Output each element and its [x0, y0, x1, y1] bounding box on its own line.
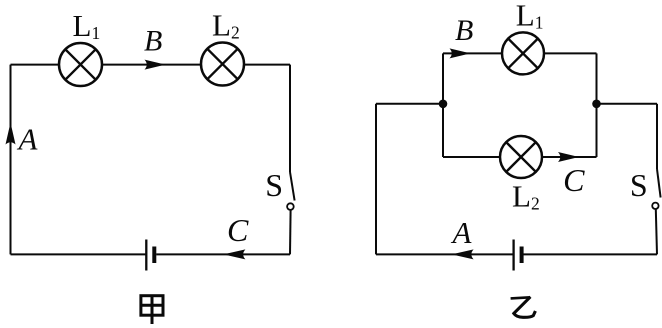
battery long plate [512, 240, 514, 271]
svg-text:L2: L2 [212, 8, 240, 43]
switch S blade [290, 172, 295, 201]
switch S contact circle [652, 203, 658, 209]
svg-text:L2: L2 [512, 179, 540, 214]
current arrow A (bottom, left) [452, 249, 474, 259]
wire: left outer vertical [375, 104, 377, 255]
label 甲 (drawn strokes) [141, 296, 163, 324]
wire: parallel box left vertical [442, 53, 444, 157]
wire: bottom branch (L2) [443, 156, 597, 158]
wire: right vertical lower (below switch) [289, 210, 292, 255]
wire: bottom right segment (to battery) [156, 253, 290, 255]
current arrow C (right branch bottom) [558, 152, 579, 162]
wire: bottom side right segment [522, 253, 657, 255]
current arrow A (up) [6, 123, 16, 145]
svg-text:B: B [455, 14, 473, 47]
wire: right vertical upper (to switch) [289, 65, 291, 172]
svg-text:S: S [265, 167, 283, 203]
lamp L1 [59, 43, 102, 86]
wire: parallel box right vertical [596, 53, 598, 157]
battery long plate [145, 240, 147, 271]
node junction dot left [439, 100, 448, 109]
svg-text:C: C [563, 162, 585, 198]
lamp L2 [201, 43, 244, 86]
node junction dot right [592, 100, 601, 109]
wire: left rail to node [376, 103, 443, 105]
wire: right outer vertical lower [656, 209, 657, 254]
wire: right outer vertical upper (to switch) [656, 104, 658, 169]
svg-text:L1: L1 [73, 8, 101, 43]
lamp L1 (right circuit) [502, 32, 544, 74]
wire: right rail from node [597, 103, 658, 105]
battery short thick plate [152, 247, 156, 264]
label 乙 (drawn strokes) [511, 297, 536, 318]
battery short thick plate [520, 247, 524, 264]
svg-text:C: C [227, 212, 249, 248]
wire: top side [11, 64, 291, 66]
svg-text:B: B [144, 25, 162, 58]
current arrow B (right) [145, 60, 166, 70]
lamp L2 (right circuit) [500, 136, 542, 178]
wire: left vertical (A branch) [10, 65, 12, 255]
svg-text:A: A [451, 215, 473, 250]
current arrow B (right branch top) [450, 48, 471, 58]
svg-text:L1: L1 [516, 0, 544, 33]
svg-text:A: A [17, 121, 39, 156]
wire: top branch (L1) [443, 52, 597, 54]
current arrow C (left) [223, 249, 245, 259]
svg-text:S: S [630, 167, 648, 203]
switch S contact circle [287, 203, 294, 210]
switch S blade [657, 169, 661, 198]
wire: bottom side left segment [376, 253, 514, 255]
wire: bottom left segment (battery to corner) [11, 253, 147, 255]
